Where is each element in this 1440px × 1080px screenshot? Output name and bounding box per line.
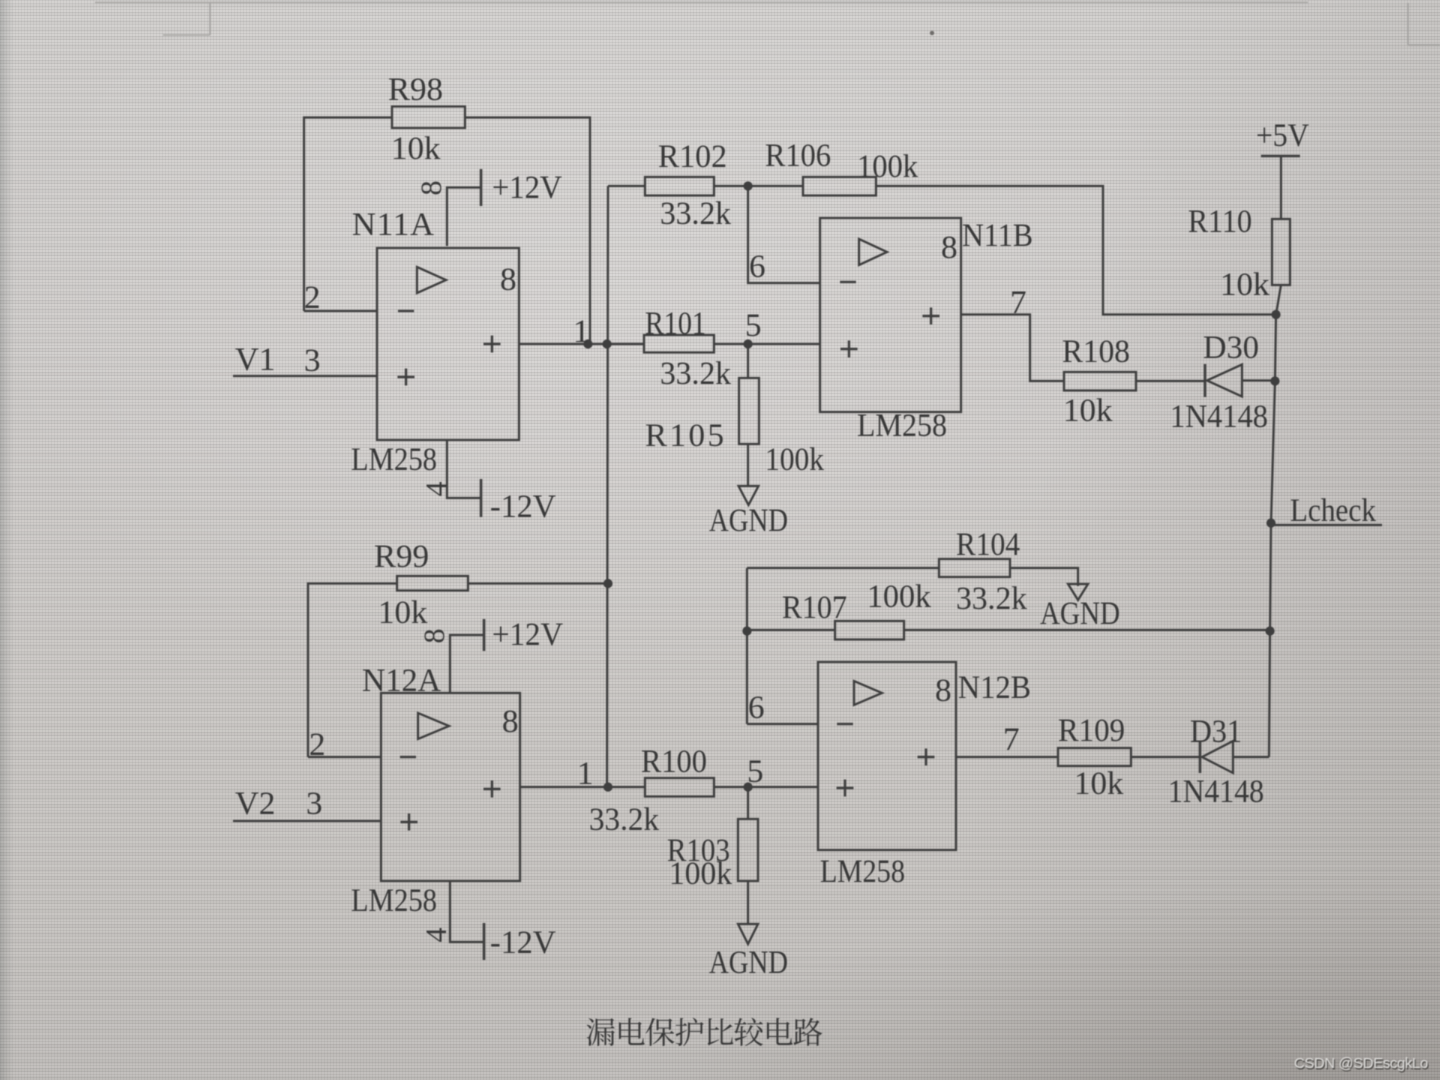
N11B inverting minus xyxy=(840,281,856,283)
N12A inverting minus xyxy=(400,756,416,758)
pin 4 power stub N12A xyxy=(450,881,483,942)
junction dot bus-R106node xyxy=(1271,310,1280,319)
svg-text:6: 6 xyxy=(748,690,765,726)
N12B plus left xyxy=(837,787,854,789)
wire node5 down to R105 xyxy=(747,344,749,378)
svg-text:N12A: N12A xyxy=(362,663,441,699)
resistor R98 xyxy=(392,107,465,129)
pin 8 power stub N12A xyxy=(450,635,483,693)
wire R105 to AGND xyxy=(747,444,749,486)
wire R108 to D30 xyxy=(1136,380,1205,382)
svg-text:R108: R108 xyxy=(1062,334,1130,370)
wire R103 to AGND xyxy=(747,881,749,924)
junction dot node6 xyxy=(743,181,752,190)
resistor R99 xyxy=(397,576,468,591)
junction dot bus-R107 xyxy=(1265,626,1274,635)
wire bus to R101 xyxy=(608,343,644,345)
svg-text:8: 8 xyxy=(935,673,952,709)
wire N11A output xyxy=(519,343,645,345)
svg-text:33.2k: 33.2k xyxy=(956,581,1027,617)
resistor R110 xyxy=(1272,219,1290,285)
wire node6b vertical xyxy=(746,568,748,724)
wire pin2 N11A xyxy=(304,310,377,312)
svg-text:AGND: AGND xyxy=(709,945,788,981)
power bar +12V xyxy=(480,169,483,206)
wire right bus xyxy=(1269,285,1281,757)
svg-text:N11B: N11B xyxy=(962,218,1033,254)
junction dot node5 xyxy=(743,339,752,348)
wire pin2 N12A xyxy=(308,756,381,758)
wire R107 to bus xyxy=(904,629,1270,631)
svg-text:R106: R106 xyxy=(765,138,831,174)
svg-text:4: 4 xyxy=(420,928,453,943)
svg-text:8: 8 xyxy=(502,704,519,740)
wire N12B output pin7 xyxy=(956,756,1058,758)
svg-text:33.2k: 33.2k xyxy=(660,196,731,232)
power bar -12V (N12A) xyxy=(483,923,486,960)
svg-text:D31: D31 xyxy=(1190,714,1242,750)
wire N11B output pin7 xyxy=(961,315,1064,382)
svg-text:N12B: N12B xyxy=(958,670,1031,706)
wire R102 to node6 xyxy=(714,185,748,187)
svg-text:LM258: LM258 xyxy=(820,854,905,890)
svg-text:+12V: +12V xyxy=(492,170,562,206)
wire R98 to output node xyxy=(465,118,590,345)
resistor R108 xyxy=(1064,372,1136,391)
op-amp N11B body xyxy=(820,218,961,412)
title 漏电保护比较电路 xyxy=(587,1018,823,1046)
svg-text:100k: 100k xyxy=(867,579,931,615)
N11B plus left xyxy=(841,348,858,350)
wire +5V to R110 xyxy=(1280,156,1282,219)
svg-text:R109: R109 xyxy=(1058,713,1125,749)
svg-text:8: 8 xyxy=(941,230,958,266)
N12A plus output xyxy=(484,788,501,790)
resistor R105 xyxy=(739,378,759,444)
N12B inverting minus xyxy=(837,723,853,725)
svg-text:1: 1 xyxy=(573,314,590,350)
N11A inverting input minus xyxy=(398,310,414,312)
junction dot bus top xyxy=(602,339,611,348)
wire node6 to R106 xyxy=(748,185,803,187)
svg-text:-12V: -12V xyxy=(490,489,556,525)
wire pin6 N12B xyxy=(747,723,818,725)
junction dot N12A out bus xyxy=(603,782,612,791)
wire node5b to pin5 xyxy=(748,786,818,788)
wire node6b to R107 xyxy=(747,629,835,631)
svg-text:8: 8 xyxy=(418,629,451,644)
svg-text:100k: 100k xyxy=(765,442,824,478)
wire feedback loop R99 xyxy=(308,584,397,758)
decor faint window edge top xyxy=(95,2,1440,45)
wire R106 right then down to out node xyxy=(876,186,1276,315)
op-amp N11A triangle xyxy=(417,267,446,293)
svg-text:V1: V1 xyxy=(235,342,275,378)
svg-text:33.2k: 33.2k xyxy=(660,356,731,392)
resistor R100 xyxy=(645,778,714,797)
svg-text:R100: R100 xyxy=(641,744,707,780)
wire pin3 V1 xyxy=(233,375,377,377)
wire pin3 V2 xyxy=(233,820,381,822)
wire feedback loop R98 left/top xyxy=(304,118,392,312)
wire D31 to bus xyxy=(1233,756,1269,758)
svg-text:AGND: AGND xyxy=(1040,596,1120,632)
svg-text:10k: 10k xyxy=(391,131,441,167)
pin 4 power stub N11A xyxy=(447,440,480,498)
svg-text:8: 8 xyxy=(500,262,517,298)
junction dot R99 bus xyxy=(603,579,612,588)
svg-text:10k: 10k xyxy=(1074,766,1124,802)
wire node5b down R103 xyxy=(747,787,749,819)
svg-text:5: 5 xyxy=(745,308,762,344)
diode D31 triangle xyxy=(1202,741,1233,773)
wire R104 left xyxy=(747,567,939,569)
pin 8 power stub N11A xyxy=(447,188,480,247)
svg-text:1N4148: 1N4148 xyxy=(1170,399,1268,435)
resistor R104 xyxy=(939,559,1010,577)
wire R101 to node5 xyxy=(714,343,748,345)
svg-text:N11A: N11A xyxy=(352,207,434,243)
svg-text:10k: 10k xyxy=(1220,267,1270,303)
op-amp N12A body xyxy=(381,693,520,881)
wire node5 to pin5 xyxy=(748,343,820,345)
wire bus to R102 xyxy=(608,185,645,187)
wire R109 to D31 xyxy=(1131,756,1200,758)
svg-text:3: 3 xyxy=(304,343,321,379)
junction dot bus-D30 xyxy=(1270,376,1279,385)
wire R99 to bus xyxy=(468,582,608,584)
op-amp N11A body xyxy=(377,248,519,440)
watermark CSDN xyxy=(1294,1056,1429,1074)
power bar -12V xyxy=(480,479,483,517)
diode D31 cathode bar xyxy=(1199,741,1202,773)
resistor R109 xyxy=(1058,748,1131,766)
wire node6 down to pin6 xyxy=(748,186,820,283)
svg-text:R102: R102 xyxy=(658,139,727,175)
svg-text:10k: 10k xyxy=(1063,393,1113,429)
power bar +12V (N12A) xyxy=(483,619,486,651)
N12A plus left xyxy=(401,821,418,823)
svg-text:33.2k: 33.2k xyxy=(589,802,659,838)
wire R100 to node5b xyxy=(714,786,748,788)
svg-text:4: 4 xyxy=(420,482,453,497)
N12B plus output xyxy=(918,756,935,758)
svg-text:+12V: +12V xyxy=(492,617,563,653)
op-amp N12A triangle xyxy=(418,713,449,739)
wire R104 to AGND stub xyxy=(1010,568,1078,586)
svg-text:D30: D30 xyxy=(1203,330,1259,366)
svg-text:-12V: -12V xyxy=(490,925,556,961)
ground AGND triangle (R105) xyxy=(739,486,759,505)
svg-text:AGND: AGND xyxy=(709,503,788,539)
svg-text:R105: R105 xyxy=(645,418,724,454)
svg-text:10k: 10k xyxy=(378,595,428,631)
resistor R103 xyxy=(738,819,758,881)
svg-text:V2: V2 xyxy=(235,786,275,822)
ground AGND triangle (R104) xyxy=(1068,584,1088,600)
junction dot node5b xyxy=(743,782,752,791)
svg-text:3: 3 xyxy=(306,786,323,822)
ground AGND triangle (R103) xyxy=(738,924,758,944)
svg-text:1: 1 xyxy=(577,756,594,792)
node Lcheck tick xyxy=(1271,524,1382,526)
junction dot output N11A xyxy=(583,339,592,348)
diode D30 cathode bar xyxy=(1204,364,1207,397)
wire vertical bus xyxy=(607,186,608,787)
N11A plus output xyxy=(484,343,501,345)
svg-text:+5V: +5V xyxy=(1256,118,1309,154)
op-amp N12B triangle xyxy=(854,681,882,705)
svg-text:R110: R110 xyxy=(1188,204,1252,240)
decor speck xyxy=(930,31,934,35)
resistor R107 xyxy=(835,621,904,640)
N11B plus output xyxy=(923,315,940,317)
svg-text:R104: R104 xyxy=(956,527,1020,563)
junction dot node6b xyxy=(742,626,751,635)
resistor R102 xyxy=(645,177,714,196)
svg-text:Lcheck: Lcheck xyxy=(1290,493,1376,529)
svg-text:1N4148: 1N4148 xyxy=(1168,774,1264,810)
op-amp N12B body xyxy=(818,662,956,850)
wire D30 to bus xyxy=(1242,379,1276,381)
power rail bar +5V xyxy=(1261,155,1300,157)
wire N12A output xyxy=(520,786,645,788)
svg-text:R99: R99 xyxy=(374,539,429,575)
svg-text:LM258: LM258 xyxy=(351,442,437,478)
svg-text:100k: 100k xyxy=(669,856,732,892)
svg-text:6: 6 xyxy=(749,249,766,285)
svg-text:LM258: LM258 xyxy=(857,408,947,444)
svg-text:R101: R101 xyxy=(645,306,706,342)
svg-text:100k: 100k xyxy=(857,149,918,185)
resistor R106 xyxy=(803,177,876,196)
junction dot bus-Lcheck xyxy=(1266,518,1275,527)
N11A plus left xyxy=(398,376,415,378)
resistor R101 xyxy=(644,335,714,353)
diode D30 triangle xyxy=(1207,365,1242,397)
svg-text:7: 7 xyxy=(1003,722,1020,758)
op-amp N11B triangle xyxy=(859,239,887,265)
svg-text:8: 8 xyxy=(415,181,448,196)
svg-text:CSDN @SDEscgkLo: CSDN @SDEscgkLo xyxy=(1294,1056,1428,1072)
svg-text:5: 5 xyxy=(747,754,764,790)
svg-text:LM258: LM258 xyxy=(351,883,437,919)
svg-text:R98: R98 xyxy=(388,72,443,108)
